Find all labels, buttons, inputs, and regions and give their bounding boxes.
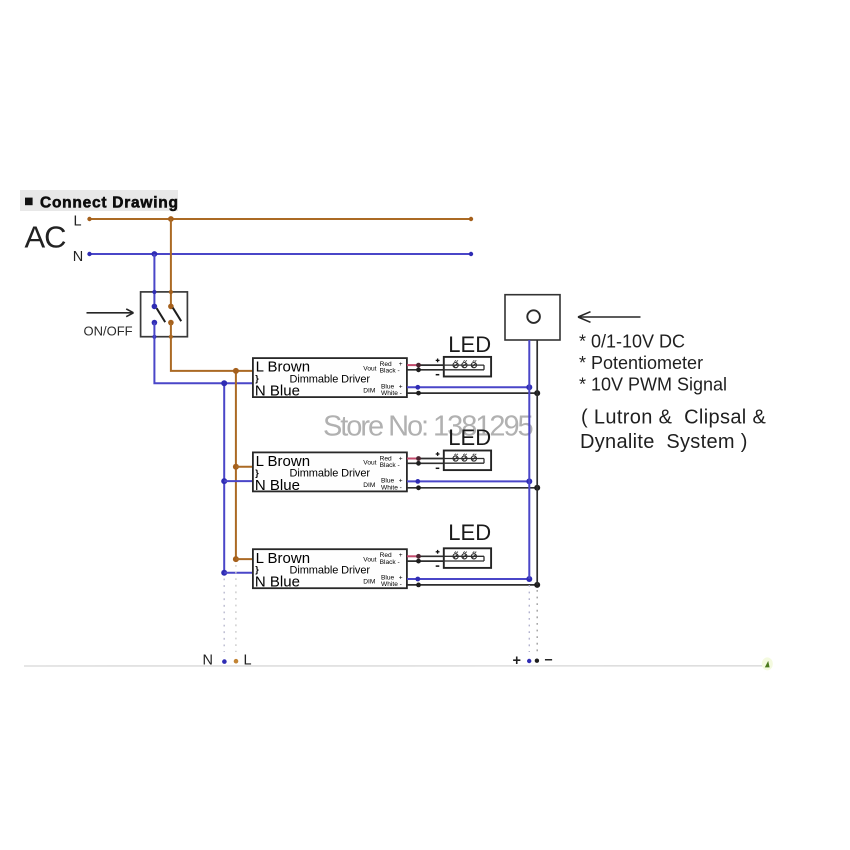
- svg-text:DIM: DIM: [363, 482, 375, 489]
- node L bus / driver2: [233, 464, 239, 470]
- LED strip LS1: [436, 357, 491, 377]
- node N bus / driver3: [221, 570, 227, 576]
- svg-text:N: N: [73, 249, 83, 265]
- arrow pointing to switch: [87, 309, 134, 317]
- svg-text:L: L: [74, 213, 82, 229]
- svg-text:( Lutron & Clipsal &: ( Lutron & Clipsal &: [581, 407, 767, 429]
- wire driver3 N entry: [224, 572, 252, 574]
- svg-text:Connect Drawing: Connect Drawing: [40, 195, 179, 212]
- svg-text:LED: LED: [448, 520, 491, 545]
- terminal dot DIM+ (blue): [527, 659, 531, 663]
- wire AC live L (brown): [87, 217, 473, 221]
- wire driver2 N entry: [224, 480, 252, 482]
- wire DIM- white, driver U3: [407, 582, 540, 588]
- driver U1 (dimmable LED driver): [253, 358, 407, 399]
- wire Vout- black, driver U2: [407, 461, 444, 466]
- svg-text:Dynalite System ): Dynalite System ): [580, 431, 748, 453]
- svg-text:LED: LED: [448, 332, 491, 357]
- green cursor mark: [762, 657, 773, 670]
- wire DIM+ blue, driver U2: [407, 478, 532, 484]
- LED D22: [462, 454, 467, 461]
- svg-text:Vout: Vout: [363, 460, 376, 467]
- node L bus / driver3: [233, 556, 239, 562]
- terminal dot DIM- (black): [535, 659, 539, 663]
- LED strip LS2: [436, 451, 491, 471]
- wire driver3 L entry: [236, 558, 252, 560]
- svg-text:DIM: DIM: [363, 388, 375, 395]
- wire N drop to switch: [153, 254, 155, 306]
- LED D31: [453, 552, 458, 559]
- LED D12: [462, 360, 467, 367]
- baseline rule: [24, 665, 768, 667]
- driver U2 (dimmable LED driver): [253, 452, 407, 493]
- node L bus / driver1: [233, 368, 239, 374]
- svg-text:* Potentiometer: * Potentiometer: [579, 353, 703, 373]
- svg-text:White -: White -: [381, 581, 402, 588]
- bus: switched L vertical (brown): [235, 371, 237, 559]
- wire Vout+ red, driver U1: [407, 363, 444, 368]
- LED D13: [471, 360, 476, 367]
- svg-text:DIM: DIM: [363, 579, 375, 586]
- dotted extension of N bus: [223, 579, 225, 653]
- svg-text:Vout: Vout: [363, 556, 376, 563]
- terminal dot L (orange): [234, 659, 239, 664]
- svg-text:Black -: Black -: [380, 462, 400, 469]
- wire DIM+ blue, driver U1: [407, 384, 532, 390]
- LED D23: [471, 454, 476, 461]
- wire driver2 L entry: [236, 466, 252, 468]
- node: N to switch junction: [152, 251, 158, 257]
- wire Vout- black, driver U3: [407, 559, 444, 564]
- arrow pointing to potentiometer: [578, 312, 641, 323]
- dotted extension of DIM- bus: [536, 590, 538, 652]
- wire AC neutral N (blue): [87, 252, 473, 256]
- svg-text:N Blue: N Blue: [255, 477, 300, 494]
- LED strip LS3: [436, 548, 491, 568]
- LED D33: [471, 552, 476, 559]
- svg-text:Black -: Black -: [380, 368, 400, 375]
- switch S1 (DPST ON/OFF): [141, 290, 188, 339]
- bus: DIM- vertical (dark): [536, 340, 538, 585]
- svg-text:White -: White -: [381, 390, 402, 397]
- svg-text:LED: LED: [448, 425, 491, 450]
- svg-text:N Blue: N Blue: [255, 574, 300, 591]
- wire switched N down from switch: [154, 323, 252, 384]
- wire DIM- white, driver U2: [407, 485, 540, 491]
- terminal dot N (blue): [222, 659, 227, 664]
- svg-text:Black -: Black -: [380, 559, 400, 566]
- LED D11: [453, 360, 458, 367]
- wire Vout+ red, driver U3: [407, 554, 444, 559]
- note: compatible systems: [580, 407, 767, 454]
- svg-text:Dimmable Driver: Dimmable Driver: [290, 373, 371, 385]
- svg-text:Store No: 1381295: Store No: 1381295: [323, 411, 533, 443]
- node: L to switch junction: [168, 216, 174, 222]
- wire Vout- black, driver U1: [407, 367, 444, 372]
- svg-text:AC: AC: [25, 220, 67, 255]
- title block: Connect Drawing: [20, 190, 179, 212]
- svg-text:Dimmable Driver: Dimmable Driver: [290, 564, 371, 576]
- wire Vout+ red, driver U2: [407, 456, 444, 461]
- svg-text:* 10V PWM Signal: * 10V PWM Signal: [579, 375, 727, 395]
- driver U3 (dimmable LED driver): [253, 549, 407, 590]
- svg-text:ON/OFF: ON/OFF: [84, 324, 133, 339]
- LED D32: [462, 552, 467, 559]
- wire DIM+ blue, driver U3: [407, 576, 532, 582]
- wire DIM- white, driver U1: [407, 390, 540, 396]
- wire L drop to switch: [170, 219, 172, 306]
- svg-text:N Blue: N Blue: [255, 383, 300, 400]
- LED D21: [453, 454, 458, 461]
- svg-text:Dimmable Driver: Dimmable Driver: [290, 468, 371, 480]
- potentiometer / dimmer P1: [505, 295, 560, 340]
- svg-text:Vout: Vout: [363, 365, 376, 372]
- svg-text:White -: White -: [381, 484, 402, 491]
- bus: switched N vertical (blue): [223, 383, 225, 573]
- node N bus / driver1: [221, 380, 227, 386]
- node N bus / driver2: [221, 478, 227, 484]
- svg-text:* 0/1-10V DC: * 0/1-10V DC: [579, 332, 685, 352]
- bus: DIM+ vertical (blue): [528, 340, 530, 579]
- note: control options: [579, 332, 727, 395]
- dotted extension of DIM+ bus: [528, 585, 530, 652]
- wire switched L down from switch: [171, 323, 252, 371]
- dotted extension of L bus: [235, 565, 237, 652]
